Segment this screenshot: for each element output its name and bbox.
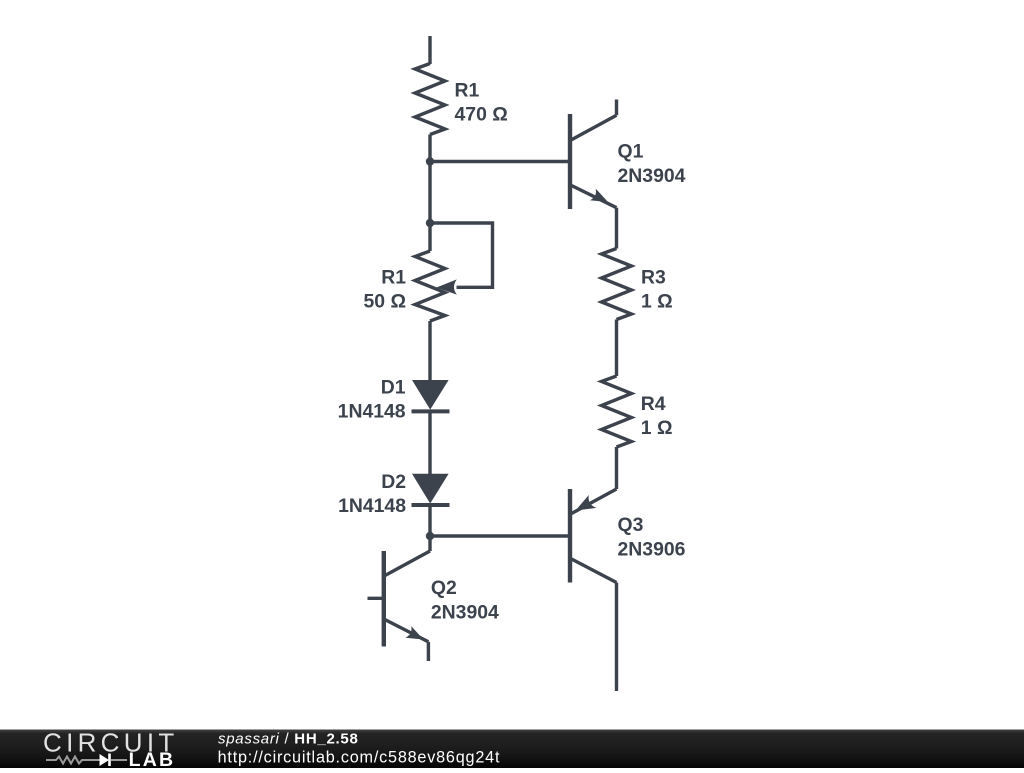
svg-text:R1: R1 bbox=[455, 79, 480, 101]
wire D1 to D2 bbox=[428, 411, 431, 474]
logo resistor-diode symbol bbox=[46, 754, 127, 767]
svg-text:1N4148: 1N4148 bbox=[338, 495, 406, 517]
svg-text:Q1: Q1 bbox=[618, 140, 644, 162]
potentiometer R1 50 ohm bbox=[415, 251, 457, 321]
label D2 bbox=[338, 471, 406, 517]
svg-text:470 Ω: 470 Ω bbox=[455, 103, 508, 125]
label R3 bbox=[641, 266, 673, 312]
label R1 50 bbox=[363, 266, 406, 312]
svg-text:50 Ω: 50 Ω bbox=[363, 290, 406, 312]
svg-text:2N3906: 2N3906 bbox=[618, 539, 686, 561]
wire R1 to pot bbox=[428, 135, 431, 252]
node junction pot top bbox=[426, 219, 434, 227]
resistor R1 470 ohm bbox=[415, 64, 445, 135]
svg-text:R3: R3 bbox=[641, 266, 666, 288]
transistor Q3 2N3906 bbox=[570, 489, 617, 691]
wire node to Q3 base bbox=[430, 534, 570, 537]
svg-text:R4: R4 bbox=[641, 393, 666, 415]
svg-text:Q2: Q2 bbox=[431, 577, 457, 599]
node junction lower bbox=[426, 532, 434, 540]
resistor R3 1 ohm bbox=[602, 249, 632, 320]
svg-text:2N3904: 2N3904 bbox=[431, 601, 499, 623]
svg-text:LAB: LAB bbox=[129, 749, 176, 768]
wire pot wiper loop bbox=[430, 223, 493, 287]
wire pot to D1 bbox=[428, 321, 431, 381]
svg-text:1N4148: 1N4148 bbox=[338, 401, 406, 423]
wire node to Q1 base bbox=[430, 160, 570, 163]
wire D2 to lower node bbox=[428, 505, 431, 551]
label R4 bbox=[641, 393, 673, 439]
label R1 470 bbox=[455, 79, 508, 125]
svg-text:spassari / HH_2.58: spassari / HH_2.58 bbox=[218, 731, 359, 748]
node junction upper bbox=[426, 157, 434, 165]
svg-text:D2: D2 bbox=[381, 471, 406, 493]
transistor Q2 2N3904 bbox=[368, 551, 431, 661]
resistor R4 1 ohm bbox=[602, 376, 632, 447]
diode D2 bbox=[412, 474, 450, 505]
wire R4 to Q3 emitter bbox=[615, 447, 618, 489]
svg-text:D1: D1 bbox=[381, 377, 406, 399]
svg-text:http://circuitlab.com/c588ev86: http://circuitlab.com/c588ev86qg24t bbox=[218, 749, 501, 767]
svg-text:R1: R1 bbox=[381, 266, 406, 288]
wire R3 to R4 bbox=[615, 320, 618, 377]
wire top stub above R1 bbox=[428, 36, 431, 64]
label Q3 bbox=[618, 514, 686, 561]
svg-text:1 Ω: 1 Ω bbox=[641, 290, 673, 312]
diode D1 bbox=[412, 381, 450, 412]
transistor Q1 2N3904 bbox=[570, 100, 617, 210]
wire Q1 emitter to R3 bbox=[615, 208, 618, 249]
svg-text:Q3: Q3 bbox=[618, 514, 644, 536]
svg-text:1 Ω: 1 Ω bbox=[641, 417, 673, 439]
label D1 bbox=[338, 377, 406, 423]
footer bar bbox=[0, 730, 1024, 769]
label Q1 bbox=[618, 140, 686, 187]
svg-text:2N3904: 2N3904 bbox=[618, 165, 686, 187]
label Q2 bbox=[431, 577, 499, 624]
